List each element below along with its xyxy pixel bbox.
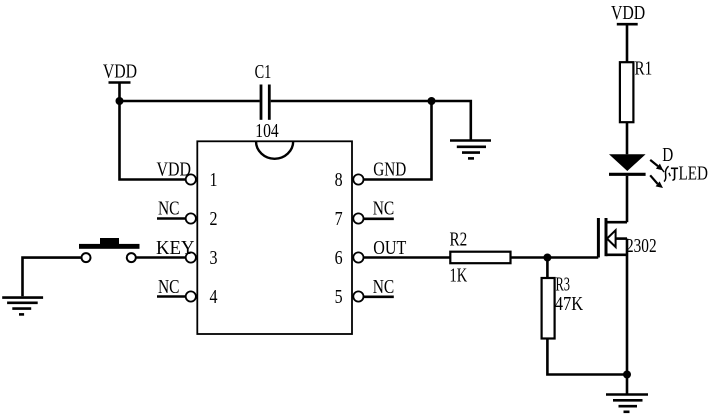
svg-text:1K: 1K bbox=[450, 265, 468, 287]
node junction R2/R3/gate bbox=[543, 254, 551, 262]
wire button to pin 3 KEY bbox=[136, 256, 186, 259]
svg-text:VDD: VDD bbox=[103, 61, 137, 83]
resistor R1 bbox=[620, 62, 634, 122]
power symbol VDD (top right) bbox=[611, 2, 645, 24]
LED D cathode bar bbox=[609, 173, 646, 176]
svg-text:7: 7 bbox=[335, 208, 343, 230]
svg-text:8: 8 bbox=[335, 169, 343, 191]
svg-text:47K: 47K bbox=[555, 293, 584, 315]
svg-text:R2: R2 bbox=[450, 229, 468, 251]
LED emission arrow 1 bbox=[650, 160, 663, 171]
svg-text:NC: NC bbox=[158, 276, 180, 298]
IC U1 body bbox=[197, 141, 352, 334]
svg-text:NC: NC bbox=[373, 198, 395, 220]
wire VDD to R1 bbox=[626, 24, 629, 62]
svg-text:LED: LED bbox=[679, 163, 709, 185]
svg-text:VDD: VDD bbox=[157, 159, 192, 181]
wire R2 to MOSFET gate bbox=[511, 256, 599, 259]
ground (bottom right) bbox=[606, 395, 648, 412]
svg-text:KEY: KEY bbox=[156, 237, 195, 259]
power symbol VDD (top left) bbox=[103, 61, 137, 83]
svg-text:2: 2 bbox=[210, 208, 218, 230]
wire junction to top-right ground bbox=[432, 101, 471, 140]
ground (bottom left) bbox=[2, 298, 43, 315]
wire VDD rail to C1 left plate bbox=[120, 100, 260, 103]
capacitor C1 bbox=[261, 85, 269, 120]
node junction on VDD rail bbox=[116, 97, 124, 105]
pin 4 bbox=[186, 291, 196, 301]
pin 7 bbox=[353, 213, 363, 223]
svg-text:GND: GND bbox=[373, 159, 406, 181]
svg-text:6: 6 bbox=[335, 247, 343, 269]
wire stub NC pin 2 bbox=[157, 217, 186, 220]
resistor R3 bbox=[542, 278, 555, 339]
wire C1 right plate to ground junction bbox=[271, 100, 432, 103]
wire stub NC pin 5 bbox=[364, 295, 394, 298]
svg-text:C1: C1 bbox=[255, 61, 272, 83]
svg-text:NC: NC bbox=[158, 198, 180, 220]
MOSFET Q1 2302 bbox=[598, 218, 627, 258]
pin 5 bbox=[353, 291, 363, 301]
curve glyph before LED bbox=[664, 166, 669, 181]
svg-text:1: 1 bbox=[210, 169, 218, 191]
ground (top right) bbox=[450, 141, 491, 159]
svg-text:4: 4 bbox=[210, 286, 218, 308]
node junction GND rail bbox=[428, 97, 436, 105]
svg-text:NC: NC bbox=[373, 276, 395, 298]
pin 3 bbox=[186, 252, 196, 262]
node junction source/ground bbox=[623, 371, 631, 379]
svg-text:3: 3 bbox=[210, 247, 218, 269]
wire LED cathode to MOSFET drain bbox=[626, 176, 629, 222]
LED emission arrow 2 bbox=[650, 175, 663, 188]
wire R1 to LED bbox=[626, 122, 629, 154]
wire VDD symbol down and across to pin 1 bbox=[120, 83, 186, 180]
wire junction to bottom-right ground bbox=[626, 375, 629, 394]
svg-text:2302: 2302 bbox=[626, 235, 657, 257]
LED D anode triangle bbox=[609, 154, 646, 171]
wire MOSFET source down bbox=[626, 239, 629, 375]
wire stub NC pin 4 bbox=[157, 295, 186, 298]
svg-text:VDD: VDD bbox=[611, 2, 645, 24]
svg-text:104: 104 bbox=[255, 120, 278, 142]
pin 6 bbox=[353, 252, 363, 262]
pin 1 bbox=[186, 174, 196, 184]
IC U1 notch bbox=[256, 141, 293, 159]
wire junction down to R3 bbox=[546, 258, 549, 279]
svg-text:D: D bbox=[662, 144, 673, 166]
wire button to left ground bbox=[23, 258, 82, 297]
resistor R2 bbox=[450, 252, 510, 264]
pin 8 bbox=[353, 174, 363, 184]
push button S1 bbox=[79, 238, 140, 262]
svg-text:R1: R1 bbox=[635, 57, 653, 79]
wire OUT pin 6 to R2 bbox=[364, 256, 451, 259]
wire pin 8 GND up to rail bbox=[364, 101, 432, 180]
pin 2 bbox=[186, 213, 196, 223]
wire stub NC pin 7 bbox=[364, 218, 394, 221]
svg-text:5: 5 bbox=[335, 286, 343, 308]
wire R3 bottom to source junction bbox=[547, 339, 627, 375]
svg-text:OUT: OUT bbox=[373, 237, 406, 259]
